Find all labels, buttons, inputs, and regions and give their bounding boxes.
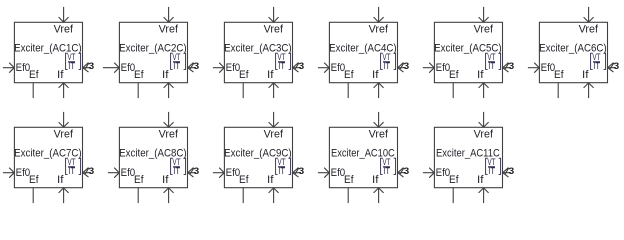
svg-text:IT: IT — [488, 166, 495, 177]
exciter block U7 (Exciter_(AC7C)): body box — [14, 127, 82, 187]
svg-text:Vref: Vref — [54, 129, 74, 141]
wire: Ef output stub from U6 bottom — [557, 83, 559, 98]
exciter block U6 (Exciter_(AC6C)): body box — [539, 22, 607, 82]
svg-text:If: If — [582, 69, 589, 81]
vector port bracket [ ] for VT/IT on U8 — [171, 158, 186, 174]
svg-text:3: 3 — [509, 61, 515, 72]
wire: 3-phase VT/IT input stub into U2 right with arrowhead and slash — [188, 63, 197, 73]
vector port bracket [ ] for VT/IT on U10 — [381, 158, 396, 174]
wire: Ef0 input stub into U7 left with arrowhead — [3, 168, 15, 178]
svg-text:3: 3 — [299, 166, 305, 177]
svg-text:Vref: Vref — [264, 129, 284, 141]
svg-text:Vref: Vref — [369, 129, 389, 141]
svg-text:If: If — [372, 174, 379, 186]
port label IT (with overbar) on U5 — [488, 61, 495, 72]
exciter block U3 (Exciter_(AC3C)): body box — [224, 22, 292, 82]
wire: Vref input stub into U3 top — [269, 7, 279, 22]
svg-text:3: 3 — [194, 61, 200, 72]
svg-text:IT: IT — [383, 166, 390, 177]
vector port bracket [ ] for VT/IT on U11 — [486, 158, 501, 174]
svg-text:If: If — [57, 174, 64, 186]
port label IT (with overbar) on U4 — [383, 61, 390, 72]
svg-text:If: If — [477, 174, 484, 186]
wire: Ef0 input stub into U3 left with arrowhead — [213, 63, 225, 73]
wire: Ef output stub from U11 bottom — [452, 188, 454, 203]
exciter block U9 (Exciter_(AC9C)): body box — [224, 127, 292, 187]
svg-text:If: If — [267, 174, 274, 186]
wire: Vref input stub into U9 top — [269, 112, 279, 127]
svg-text:Ef: Ef — [449, 174, 459, 186]
svg-text:IT: IT — [278, 166, 285, 177]
port label IT (with overbar) on U9 — [278, 166, 285, 177]
svg-text:Vref: Vref — [264, 24, 284, 36]
port label IT (with overbar) on U1 — [68, 61, 75, 72]
svg-text:Ef: Ef — [449, 69, 459, 81]
svg-text:3: 3 — [404, 166, 410, 177]
svg-text:Ef: Ef — [29, 174, 39, 186]
svg-text:Ef0: Ef0 — [121, 62, 136, 74]
wire: Ef0 input stub into U11 left with arrowhead — [423, 168, 435, 178]
svg-text:Vref: Vref — [369, 24, 389, 36]
svg-text:Ef0: Ef0 — [226, 62, 241, 74]
svg-text:IT: IT — [68, 61, 75, 72]
svg-text:3: 3 — [89, 61, 95, 72]
port label IT (with overbar) on U3 — [278, 61, 285, 72]
svg-text:IT: IT — [593, 61, 600, 72]
svg-text:Ef: Ef — [344, 69, 354, 81]
exciter block U1 (Exciter_(AC1C)): body box — [14, 22, 82, 82]
wire: If input stub into U7 bottom with arrowhead — [59, 188, 69, 203]
svg-text:Vref: Vref — [474, 24, 494, 36]
svg-text:Ef: Ef — [239, 174, 249, 186]
svg-text:If: If — [57, 69, 64, 81]
exciter block U5 (Exciter_(AC5C)): body box — [434, 22, 502, 82]
vector port bracket [ ] for VT/IT on U1 — [66, 53, 81, 69]
svg-text:3: 3 — [614, 61, 620, 72]
svg-text:If: If — [372, 69, 379, 81]
port label IT (with overbar) on U6 — [593, 61, 600, 72]
wire: Vref input stub into U11 top — [479, 112, 489, 127]
svg-text:3: 3 — [509, 166, 515, 177]
wire: 3-phase VT/IT input stub into U8 right with arrowhead and slash — [188, 168, 197, 178]
svg-text:IT: IT — [488, 61, 495, 72]
wire: Ef output stub from U9 bottom — [242, 188, 244, 203]
wire: If input stub into U9 bottom with arrowhead — [269, 188, 279, 203]
exciter block U8 (Exciter_(AC8C)): body box — [119, 127, 187, 187]
svg-text:Ef: Ef — [344, 174, 354, 186]
svg-text:Ef0: Ef0 — [16, 62, 31, 74]
wire: 3-phase VT/IT input stub into U9 right with arrowhead and slash — [293, 168, 302, 178]
vector port bracket [ ] for VT/IT on U4 — [381, 53, 396, 69]
vector port bracket [ ] for VT/IT on U5 — [486, 53, 501, 69]
svg-text:3: 3 — [299, 61, 305, 72]
wire: Ef output stub from U3 bottom — [242, 83, 244, 98]
wire: If input stub into U6 bottom with arrowhead — [584, 83, 594, 98]
svg-text:3: 3 — [404, 61, 410, 72]
svg-text:Ef0: Ef0 — [331, 62, 346, 74]
svg-text:Ef0: Ef0 — [16, 167, 31, 179]
wire: Ef output stub from U4 bottom — [347, 83, 349, 98]
wire: Ef0 input stub into U6 left with arrowhead — [528, 63, 540, 73]
wire: Ef0 input stub into U4 left with arrowhead — [318, 63, 330, 73]
vector port bracket [ ] for VT/IT on U2 — [171, 53, 186, 69]
wire: Ef output stub from U5 bottom — [452, 83, 454, 98]
svg-text:IT: IT — [173, 61, 180, 72]
svg-text:IT: IT — [173, 166, 180, 177]
wire: Vref input stub into U4 top — [374, 7, 384, 22]
svg-text:Vref: Vref — [159, 129, 179, 141]
port label IT (with overbar) on U7 — [68, 166, 75, 177]
wire: Ef output stub from U8 bottom — [137, 188, 139, 203]
wire: Ef0 input stub into U10 left with arrowhead — [318, 168, 330, 178]
wire: Vref input stub into U6 top — [584, 7, 594, 22]
wire: If input stub into U5 bottom with arrowhead — [479, 83, 489, 98]
svg-text:Ef0: Ef0 — [436, 62, 451, 74]
svg-text:Ef0: Ef0 — [541, 62, 556, 74]
svg-text:Ef: Ef — [134, 174, 144, 186]
svg-text:Ef: Ef — [29, 69, 39, 81]
wire: Vref input stub into U7 top — [59, 112, 69, 127]
wire: 3-phase VT/IT input stub into U5 right with arrowhead and slash — [503, 63, 512, 73]
wire: Vref input stub into U8 top — [164, 112, 174, 127]
port label IT (with overbar) on U2 — [173, 61, 180, 72]
wire: Ef0 input stub into U5 left with arrowhead — [423, 63, 435, 73]
wire: Ef0 input stub into U1 left with arrowhead — [3, 63, 15, 73]
wire: If input stub into U1 bottom with arrowhead — [59, 83, 69, 98]
wire: If input stub into U8 bottom with arrowhead — [164, 188, 174, 203]
wire: 3-phase VT/IT input stub into U4 right with arrowhead and slash — [398, 63, 407, 73]
svg-text:Vref: Vref — [579, 24, 599, 36]
svg-text:Ef0: Ef0 — [226, 167, 241, 179]
wire: 3-phase VT/IT input stub into U1 right with arrowhead and slash — [83, 63, 92, 73]
svg-text:3: 3 — [194, 166, 200, 177]
wire: If input stub into U11 bottom with arrowhead — [479, 188, 489, 203]
wire: Vref input stub into U2 top — [164, 7, 174, 22]
vector port bracket [ ] for VT/IT on U6 — [591, 53, 606, 69]
vector port bracket [ ] for VT/IT on U9 — [276, 158, 291, 174]
svg-text:Ef0: Ef0 — [121, 167, 136, 179]
wire: Ef output stub from U7 bottom — [32, 188, 34, 203]
wire: If input stub into U3 bottom with arrowhead — [269, 83, 279, 98]
svg-text:3: 3 — [89, 166, 95, 177]
port label IT (with overbar) on U10 — [383, 166, 390, 177]
svg-text:Ef: Ef — [554, 69, 564, 81]
wire: Ef output stub from U1 bottom — [32, 83, 34, 98]
wire: Ef0 input stub into U2 left with arrowhead — [103, 63, 119, 73]
port label IT (with overbar) on U8 — [173, 166, 180, 177]
wire: Ef0 input stub into U9 left with arrowhead — [213, 168, 225, 178]
wire: 3-phase VT/IT input stub into U10 right with arrowhead and slash — [398, 168, 407, 178]
svg-text:IT: IT — [383, 61, 390, 72]
wire: 3-phase VT/IT input stub into U7 right with arrowhead and slash — [83, 168, 92, 178]
svg-text:Vref: Vref — [54, 24, 74, 36]
svg-text:Ef0: Ef0 — [331, 167, 346, 179]
wire: If input stub into U2 bottom with arrowhead — [164, 83, 174, 98]
svg-text:Ef: Ef — [239, 69, 249, 81]
wire: If input stub into U4 bottom with arrowhead — [374, 83, 384, 98]
port label IT (with overbar) on U11 — [488, 166, 495, 177]
exciter block U2 (Exciter_(AC2C)): body box — [119, 22, 187, 82]
wire: Vref input stub into U1 top — [59, 7, 69, 22]
svg-text:If: If — [267, 69, 274, 81]
svg-text:IT: IT — [68, 166, 75, 177]
svg-text:IT: IT — [278, 61, 285, 72]
svg-text:Ef0: Ef0 — [436, 167, 451, 179]
wire: 3-phase VT/IT input stub into U11 right with arrowhead and slash — [503, 168, 512, 178]
vector port bracket [ ] for VT/IT on U3 — [276, 53, 291, 69]
wire: Ef0 input stub into U8 left with arrowhead — [108, 168, 120, 178]
exciter block U10 (Exciter_AC10C): body box — [329, 127, 397, 187]
exciter block U4 (Exciter_(AC4C)): body box — [329, 22, 397, 82]
wire: Ef output stub from U2 bottom — [137, 83, 139, 98]
svg-text:If: If — [477, 69, 484, 81]
vector port bracket [ ] for VT/IT on U7 — [66, 158, 81, 174]
svg-text:If: If — [162, 174, 169, 186]
wire: 3-phase VT/IT input stub into U6 right with arrowhead and slash — [608, 63, 617, 73]
svg-text:If: If — [162, 69, 169, 81]
svg-text:Vref: Vref — [474, 129, 494, 141]
wire: 3-phase VT/IT input stub into U3 right with arrowhead and slash — [293, 63, 302, 73]
svg-text:Vref: Vref — [159, 24, 179, 36]
wire: Ef output stub from U10 bottom — [347, 188, 349, 203]
wire: If input stub into U10 bottom with arrowhead — [374, 188, 384, 203]
wire: Vref input stub into U10 top — [374, 112, 384, 127]
wire: Vref input stub into U5 top — [479, 7, 489, 22]
svg-text:Ef: Ef — [134, 69, 144, 81]
exciter block U11 (Exciter_AC11C): body box — [434, 127, 502, 187]
